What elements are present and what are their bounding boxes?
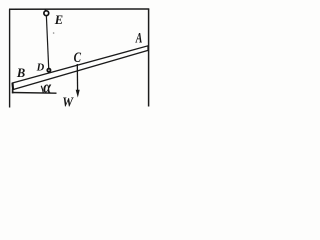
svg-text:C: C bbox=[74, 50, 82, 66]
svg-text:E: E bbox=[54, 13, 63, 27]
svg-text:A: A bbox=[135, 31, 143, 47]
angle arc bbox=[41, 86, 43, 93]
horizontal reference line for angle bbox=[12, 92, 57, 95]
svg-text:α: α bbox=[43, 78, 52, 97]
wall frame: left vertical wall line bbox=[9, 9, 11, 107]
weight arrow at C bbox=[76, 64, 78, 92]
wall frame: right vertical wall line bbox=[148, 9, 150, 107]
beam left end cap bbox=[11, 83, 14, 90]
svg-text:W: W bbox=[62, 96, 74, 111]
svg-text:B: B bbox=[16, 66, 25, 80]
wall frame: top ceiling line bbox=[9, 8, 149, 10]
junction blob at B corner bbox=[12, 89, 14, 93]
string from E to D bbox=[46, 16, 48, 68]
svg-text:D: D bbox=[36, 63, 45, 74]
paper speck bbox=[53, 32, 55, 34]
ring E hanging from ceiling bbox=[44, 9, 46, 11]
ring D on beam bbox=[47, 69, 50, 72]
beam from B to A bbox=[12, 46, 148, 90]
